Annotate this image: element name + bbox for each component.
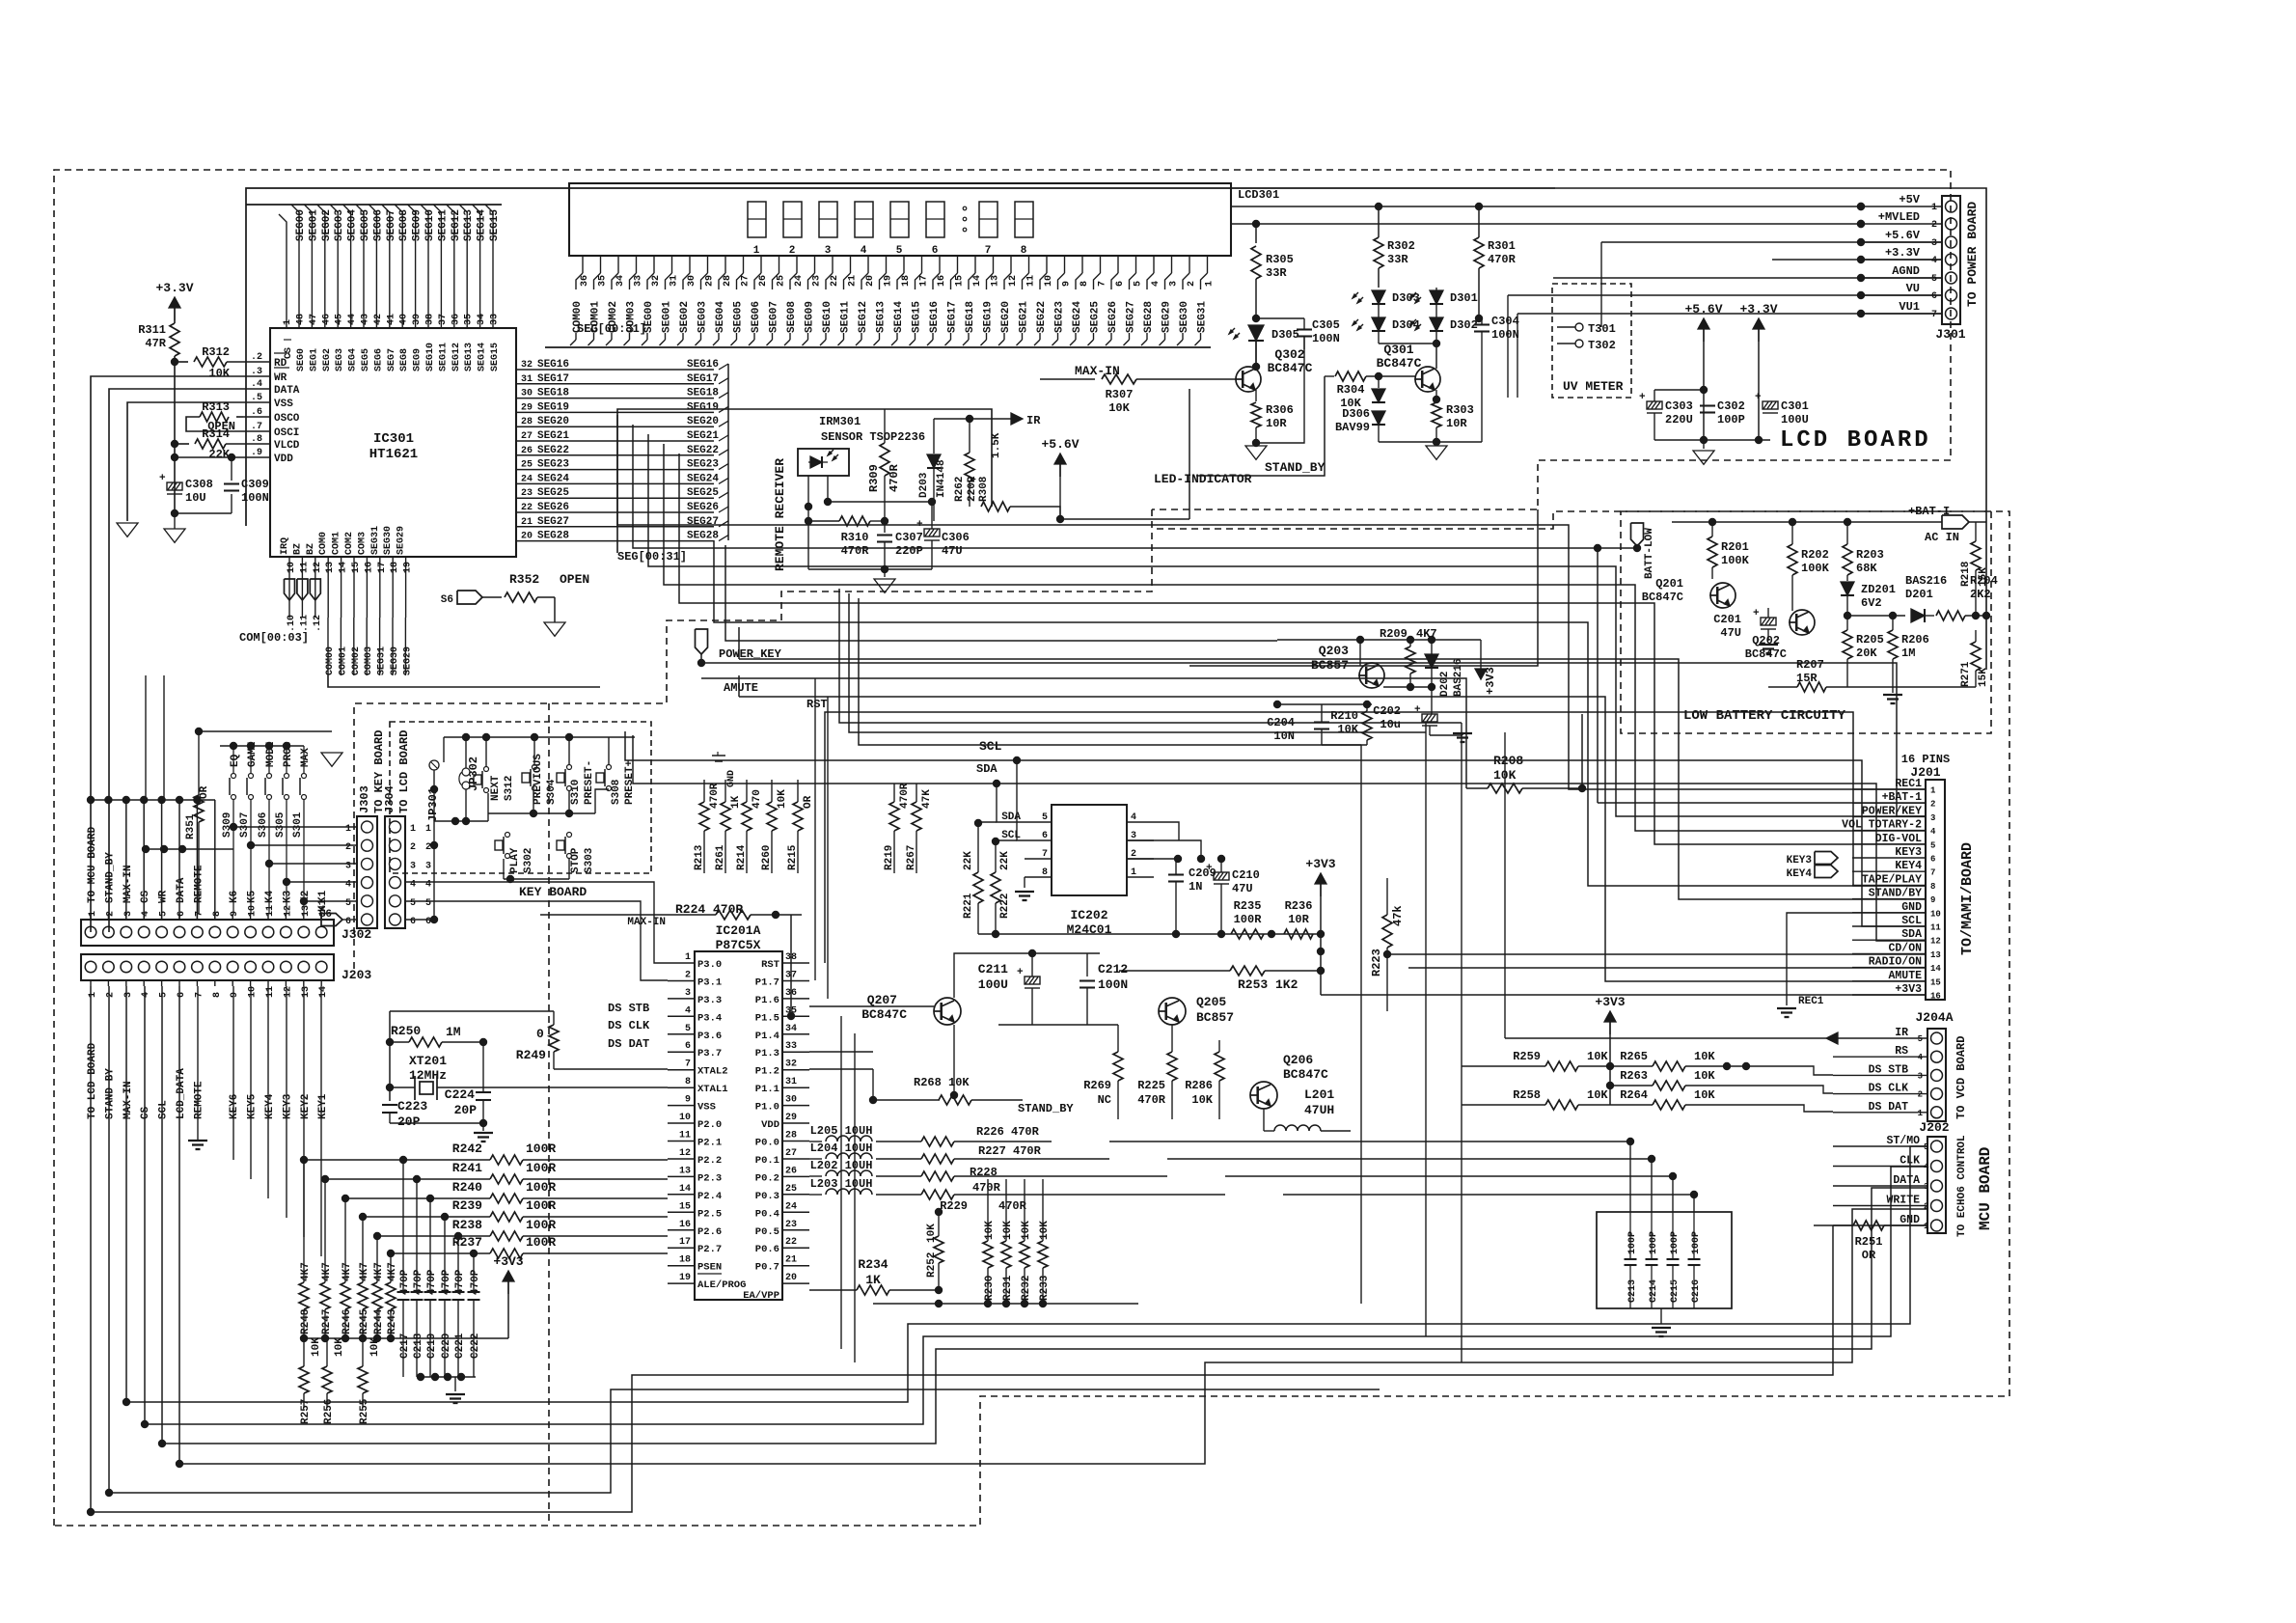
svg-text:S301: S301 xyxy=(292,811,304,838)
svg-text:REMOTE RECEIVER: REMOTE RECEIVER xyxy=(773,458,787,571)
svg-text:SEG03: SEG03 xyxy=(334,209,345,241)
svg-text:12: 12 xyxy=(1930,937,1941,947)
svg-text:DATA: DATA xyxy=(274,385,300,397)
svg-text:SEG04: SEG04 xyxy=(347,209,359,241)
resistor R267 47K xyxy=(889,802,899,831)
+5.6V arrow xyxy=(1054,454,1066,464)
svg-text:SEG30: SEG30 xyxy=(383,526,394,555)
svg-text:IR: IR xyxy=(1895,1027,1908,1039)
wire RADIO/ON xyxy=(1408,967,1926,969)
wire band row1 REC1 xyxy=(617,415,1926,789)
svg-text:6: 6 xyxy=(1042,831,1048,841)
+5.6V arrow caps xyxy=(1698,318,1709,329)
svg-text:1: 1 xyxy=(88,911,98,917)
ground C201 xyxy=(1759,644,1778,646)
svg-text:100N: 100N xyxy=(1491,328,1519,342)
svg-text:3: 3 xyxy=(825,245,832,257)
wire Q203 base xyxy=(1383,686,1432,688)
svg-text:R225: R225 xyxy=(1137,1079,1165,1092)
svg-text:+MVLED: +MVLED xyxy=(1878,210,1920,224)
svg-text:J202: J202 xyxy=(1919,1120,1949,1135)
svg-text:32: 32 xyxy=(785,1059,797,1070)
IC301 pin 7 OSCI xyxy=(243,430,270,432)
wire band row11 xyxy=(859,598,1361,745)
svg-text:1: 1 xyxy=(685,952,691,963)
svg-text:SEG10: SEG10 xyxy=(424,209,436,241)
svg-text:IC201A: IC201A xyxy=(716,923,761,938)
svg-text:5: 5 xyxy=(345,898,351,909)
svg-text:R201: R201 xyxy=(1721,540,1749,554)
svg-text:IC301: IC301 xyxy=(373,431,414,447)
svg-text:C215: C215 xyxy=(1670,1279,1681,1303)
svg-text:7: 7 xyxy=(1098,281,1108,287)
diode D202 BAS216 xyxy=(1425,654,1438,668)
svg-text:+5.6V: +5.6V xyxy=(1885,229,1921,242)
svg-text:DIG-VOL: DIG-VOL xyxy=(1875,833,1922,845)
svg-text:10N: 10N xyxy=(1273,729,1295,743)
svg-text:SEG27: SEG27 xyxy=(1126,301,1137,333)
svg-text:20K: 20K xyxy=(1856,646,1877,660)
svg-text:R240: R240 xyxy=(452,1180,482,1195)
svg-text:C302: C302 xyxy=(1717,399,1745,413)
svg-text:R219: R219 xyxy=(884,845,895,870)
svg-text:5: 5 xyxy=(896,245,903,257)
svg-text:WR: WR xyxy=(274,372,287,384)
svg-text:S312: S312 xyxy=(504,776,515,801)
svg-text:R213: R213 xyxy=(694,844,705,870)
svg-text:4K7: 4K7 xyxy=(342,1262,353,1281)
svg-text:P2.6: P2.6 xyxy=(697,1226,722,1238)
svg-text:14: 14 xyxy=(972,275,983,287)
svg-text:C210: C210 xyxy=(1232,868,1260,882)
svg-text:SEG[00:31]: SEG[00:31] xyxy=(617,550,687,564)
junction dots J302 wires xyxy=(87,796,95,804)
wire +MVLED xyxy=(1231,223,1861,225)
svg-text:47U: 47U xyxy=(1232,882,1253,895)
svg-text:10K: 10K xyxy=(1694,1088,1715,1102)
power +3.3V xyxy=(169,297,180,308)
resistor R201 100K xyxy=(1708,536,1717,567)
svg-text:C219: C219 xyxy=(426,1334,438,1359)
IC201 pin 26 P0.2 xyxy=(782,1175,809,1177)
svg-text:19: 19 xyxy=(884,275,894,287)
svg-text:24: 24 xyxy=(794,275,805,287)
svg-text:R265: R265 xyxy=(1620,1050,1648,1063)
svg-text:P1.4: P1.4 xyxy=(755,1031,779,1042)
svg-text:KEY3: KEY3 xyxy=(1787,855,1813,867)
svg-text:P2.5: P2.5 xyxy=(697,1208,722,1220)
resistor R202 100K xyxy=(1788,544,1797,575)
wire bundle bottom nest xyxy=(126,1146,1927,1402)
capacitor C308 10U xyxy=(167,482,182,494)
svg-text:.5: .5 xyxy=(251,393,262,403)
wires J302 cols to J303 xyxy=(233,826,357,828)
LED indicator outline xyxy=(1189,389,1190,519)
svg-text:1: 1 xyxy=(345,824,351,835)
svg-text:DS DAT: DS DAT xyxy=(608,1037,649,1051)
svg-text:R250: R250 xyxy=(391,1024,421,1038)
svg-text:7: 7 xyxy=(985,245,992,257)
svg-text:18: 18 xyxy=(901,275,912,287)
resistor R305 33R xyxy=(1255,224,1257,243)
wire SDA xyxy=(633,735,1926,941)
svg-text:VU1: VU1 xyxy=(1899,300,1920,314)
svg-text:SEG06: SEG06 xyxy=(372,209,384,241)
MCU board dashed border left jog xyxy=(354,509,1152,973)
capacitor C224 20P xyxy=(476,1091,491,1093)
resistor R253 1K2 xyxy=(1230,966,1265,976)
terminal T301 xyxy=(1575,323,1583,331)
svg-text:R271: R271 xyxy=(1960,661,1972,687)
svg-text:29: 29 xyxy=(521,402,533,413)
svg-text:470R: 470R xyxy=(1488,253,1517,266)
wire SDA to IC202 xyxy=(997,784,1025,822)
svg-text:CS: CS xyxy=(284,347,294,359)
svg-text:LCD301: LCD301 xyxy=(1238,188,1279,202)
remote receiver outline wire xyxy=(617,409,992,553)
svg-text:RST: RST xyxy=(806,698,828,711)
svg-text:P2.7: P2.7 xyxy=(697,1244,722,1255)
resistor R311 47R xyxy=(170,323,179,356)
IC201 pin 31 P1.1 xyxy=(782,1087,809,1088)
J203 key column wires xyxy=(232,986,234,1160)
svg-text:12: 12 xyxy=(1008,275,1019,287)
svg-text:5: 5 xyxy=(1918,1034,1923,1044)
svg-text:20: 20 xyxy=(521,532,533,542)
svg-text:STAND_BY: STAND_BY xyxy=(1018,1102,1074,1115)
svg-text:R305: R305 xyxy=(1266,253,1294,266)
bottom bus IC202 xyxy=(978,933,1321,935)
svg-text:16: 16 xyxy=(679,1220,691,1230)
svg-text:20P: 20P xyxy=(454,1103,478,1117)
svg-text:P3.3: P3.3 xyxy=(697,995,722,1006)
svg-text:10: 10 xyxy=(287,562,297,573)
svg-text:Q301: Q301 xyxy=(1383,343,1413,357)
svg-text:R222: R222 xyxy=(999,894,1011,919)
resistor R207 15R xyxy=(1797,682,1826,692)
ground caps xyxy=(454,1377,456,1391)
P0 row extensions xyxy=(1109,1141,1630,1142)
svg-text:DS CLK: DS CLK xyxy=(608,1019,650,1032)
IC201 pin 15 P2.5 xyxy=(668,1211,695,1213)
wire VDD xyxy=(175,456,243,458)
svg-text:34: 34 xyxy=(477,314,487,325)
svg-text:COM03: COM03 xyxy=(364,646,374,675)
svg-text:P0.4: P0.4 xyxy=(755,1208,779,1220)
svg-text:12: 12 xyxy=(679,1148,691,1159)
svg-text:R223: R223 xyxy=(1370,949,1383,977)
svg-text:SEG23: SEG23 xyxy=(537,459,569,471)
svg-text:+: + xyxy=(1753,608,1760,619)
capacitor C223 20P xyxy=(382,1104,397,1106)
diode D201 BAS216 xyxy=(1847,615,1905,617)
svg-text:SEG0: SEG0 xyxy=(296,348,307,371)
svg-text:21: 21 xyxy=(848,275,859,287)
svg-text:31: 31 xyxy=(785,1077,797,1087)
svg-text:VDD: VDD xyxy=(761,1119,779,1131)
svg-text:10u: 10u xyxy=(1380,718,1401,731)
wires IC202 right xyxy=(1154,822,1179,840)
svg-text:SEG5: SEG5 xyxy=(361,348,371,371)
IC201 pin 11 P2.1 xyxy=(668,1141,695,1142)
resistor R306 10R xyxy=(1255,390,1257,401)
svg-text:PLAY: PLAY xyxy=(509,847,521,873)
svg-text:SEG14: SEG14 xyxy=(477,209,488,241)
svg-text:STAND BY: STAND BY xyxy=(104,1068,116,1119)
svg-text:R268 10K: R268 10K xyxy=(914,1076,970,1089)
resistor R252 10K xyxy=(934,1236,943,1263)
svg-text:VOL TOTARY-2: VOL TOTARY-2 xyxy=(1842,819,1922,832)
svg-text:1M: 1M xyxy=(446,1025,461,1039)
svg-text:C201: C201 xyxy=(1713,613,1741,626)
svg-text:K3: K3 xyxy=(282,890,293,903)
svg-text:LOW BATTERY CIRCUITY: LOW BATTERY CIRCUITY xyxy=(1683,708,1846,724)
svg-text:SEG23: SEG23 xyxy=(1054,301,1066,333)
wire SCL to IC202 xyxy=(1017,760,1025,840)
svg-text:P0.5: P0.5 xyxy=(755,1226,779,1238)
svg-text:27: 27 xyxy=(741,275,752,287)
IC201 pin 30 P1.0 xyxy=(782,1105,809,1107)
svg-text:CS: CS xyxy=(140,1106,151,1119)
resistor R264 10K xyxy=(1653,1100,1685,1110)
svg-text:33: 33 xyxy=(785,1041,797,1052)
svg-text:27: 27 xyxy=(785,1148,797,1159)
svg-text:KEY4: KEY4 xyxy=(1787,868,1813,880)
svg-text:SEG17: SEG17 xyxy=(687,373,719,385)
IC301 top SEG label bus xyxy=(291,205,299,243)
ground outer loop xyxy=(245,526,247,536)
svg-text:68K: 68K xyxy=(1856,562,1877,575)
svg-text:R238: R238 xyxy=(452,1218,482,1232)
svg-text:C220: C220 xyxy=(441,1334,452,1359)
svg-text:6: 6 xyxy=(1931,291,1937,302)
IC201 pin 19 ALE/PROG xyxy=(668,1282,695,1284)
svg-text:Q202: Q202 xyxy=(1752,634,1780,647)
capacitor C305 100N xyxy=(1297,328,1312,330)
IC201 pin 6 P3.7 xyxy=(668,1051,695,1053)
svg-text:C222: C222 xyxy=(470,1334,481,1359)
svg-text:C218: C218 xyxy=(413,1333,424,1359)
svg-text:3: 3 xyxy=(1918,1071,1923,1081)
+3V3 arrow IC202 xyxy=(1315,873,1326,884)
svg-text:.6: .6 xyxy=(251,407,262,418)
svg-text:SCL: SCL xyxy=(158,1100,170,1119)
svg-text:COM00: COM00 xyxy=(325,646,336,675)
svg-text:SEG30: SEG30 xyxy=(390,646,400,675)
svg-text:R202: R202 xyxy=(1801,548,1829,562)
svg-text:SEG23: SEG23 xyxy=(687,459,719,471)
ground R352 xyxy=(544,622,565,636)
LCD digit 3 xyxy=(819,202,837,237)
svg-text:+: + xyxy=(1755,392,1762,403)
IC201 pin 5 P3.6 xyxy=(668,1033,695,1035)
IC301 pin 8 VLCD xyxy=(243,443,270,445)
svg-text:+3V3: +3V3 xyxy=(1305,857,1335,871)
svg-text:13: 13 xyxy=(301,905,312,917)
svg-text:470R: 470R xyxy=(998,1199,1027,1213)
svg-text:SEG11: SEG11 xyxy=(840,301,852,333)
svg-text:SEG30: SEG30 xyxy=(1179,301,1190,333)
XT201 top wire xyxy=(390,1010,554,1012)
LCD digit 1 xyxy=(748,202,766,237)
svg-text:10K: 10K xyxy=(311,1337,322,1357)
svg-text:D305: D305 xyxy=(1271,328,1299,342)
svg-text:SEG18: SEG18 xyxy=(687,388,719,399)
svg-text:SCL: SCL xyxy=(979,739,1002,754)
svg-text:SEG20: SEG20 xyxy=(537,416,569,427)
low battery ground xyxy=(1892,687,1894,693)
svg-text:S302: S302 xyxy=(523,848,534,873)
svg-text:100K: 100K xyxy=(1721,554,1750,567)
svg-text:2: 2 xyxy=(345,842,351,853)
resistor R255 10K xyxy=(299,1366,309,1393)
wire D304 D302 join xyxy=(1379,343,1436,344)
svg-text:9: 9 xyxy=(1930,895,1935,905)
svg-text:D202: D202 xyxy=(1439,672,1451,697)
keyboard matrix bus2 xyxy=(434,820,488,822)
svg-text:100R: 100R xyxy=(526,1218,556,1232)
svg-text:SEG25: SEG25 xyxy=(537,487,569,499)
svg-text:P0.1: P0.1 xyxy=(755,1155,779,1167)
wire STAND_BY to Q301 base xyxy=(1196,376,1325,476)
svg-text:BZ: BZ xyxy=(292,543,303,555)
svg-text:100N: 100N xyxy=(1098,977,1128,992)
resistor R310 470R xyxy=(839,516,870,526)
svg-text:SEG19: SEG19 xyxy=(983,301,995,333)
svg-text:33: 33 xyxy=(490,314,501,325)
svg-text:1N: 1N xyxy=(1189,880,1202,894)
svg-text:100R: 100R xyxy=(526,1180,556,1195)
svg-text:C305: C305 xyxy=(1312,318,1340,332)
svg-text:10: 10 xyxy=(1044,275,1054,287)
capacitor C209 1N xyxy=(1168,873,1184,875)
svg-text:R313: R313 xyxy=(202,400,230,414)
svg-text:COM02: COM02 xyxy=(351,646,362,675)
svg-text:23: 23 xyxy=(785,1220,797,1230)
svg-text:19: 19 xyxy=(403,562,414,573)
svg-text:R258: R258 xyxy=(1513,1088,1541,1102)
svg-text:RS: RS xyxy=(1895,1045,1908,1058)
svg-text:3: 3 xyxy=(1931,238,1937,249)
LCD digit 7 xyxy=(979,202,998,237)
wire VU1 xyxy=(1517,313,1942,315)
svg-text:+3.3V: +3.3V xyxy=(155,281,193,295)
capacitor C210 47U xyxy=(1214,872,1229,884)
svg-text:8: 8 xyxy=(1080,281,1090,287)
svg-text:SEG07: SEG07 xyxy=(386,209,397,241)
resistor R215 OR xyxy=(699,802,709,831)
svg-text:4K7: 4K7 xyxy=(321,1262,333,1281)
svg-text:SEG16: SEG16 xyxy=(929,301,941,333)
svg-text:R231: R231 xyxy=(1002,1275,1014,1301)
svg-text:SEG20: SEG20 xyxy=(687,416,719,427)
svg-text:SEG29: SEG29 xyxy=(396,526,407,555)
svg-text:R243: R243 xyxy=(387,1308,398,1334)
svg-text:14: 14 xyxy=(339,562,349,573)
svg-text:T302: T302 xyxy=(1588,339,1616,352)
svg-text:220P: 220P xyxy=(895,544,923,558)
svg-text:4K7: 4K7 xyxy=(387,1262,398,1281)
svg-text:P1.3: P1.3 xyxy=(755,1048,779,1059)
svg-text:RADIO/ON: RADIO/ON xyxy=(1869,956,1922,969)
svg-text:LED-INDICATOR: LED-INDICATOR xyxy=(1154,472,1252,486)
svg-text:D302: D302 xyxy=(1450,318,1478,332)
svg-text:SEG24: SEG24 xyxy=(687,473,719,484)
svg-text:12: 12 xyxy=(283,905,293,917)
svg-text:P2.2: P2.2 xyxy=(697,1155,722,1167)
svg-text:R228: R228 xyxy=(970,1166,998,1179)
svg-text:34: 34 xyxy=(615,275,626,287)
svg-text:6: 6 xyxy=(177,911,187,917)
svg-text:BC847C: BC847C xyxy=(1377,356,1422,371)
svg-text:.10: .10 xyxy=(287,615,297,632)
svg-text:VSS: VSS xyxy=(274,399,293,410)
svg-text:10K: 10K xyxy=(984,1221,996,1240)
svg-text:R244: R244 xyxy=(373,1308,385,1334)
svg-text:10K: 10K xyxy=(1021,1221,1032,1240)
svg-text:J203: J203 xyxy=(342,968,371,982)
LCD digit 4 xyxy=(855,202,873,237)
plug POWER_KEY xyxy=(696,629,708,654)
svg-text:9: 9 xyxy=(230,911,240,917)
svg-text:100R: 100R xyxy=(1234,913,1263,926)
svg-text:100K: 100K xyxy=(1801,562,1830,575)
svg-text:R230: R230 xyxy=(984,1276,996,1301)
key column turns xyxy=(233,1160,1785,1474)
svg-text:C214: C214 xyxy=(1649,1279,1659,1303)
wire band row9 xyxy=(839,589,1462,723)
svg-text:22: 22 xyxy=(785,1237,797,1248)
IC201 pin 2 P3.1 xyxy=(668,980,695,982)
svg-text:DS CLK: DS CLK xyxy=(1869,1083,1909,1095)
svg-text:10K: 10K xyxy=(334,1337,345,1357)
svg-text:SEG19: SEG19 xyxy=(537,401,569,413)
IC202 right pins xyxy=(1127,821,1154,823)
IC301 bottom plug .11 xyxy=(297,579,308,600)
svg-text:SEG13: SEG13 xyxy=(464,343,475,371)
ground XT201 xyxy=(482,1123,484,1131)
ground caps xyxy=(1693,451,1714,464)
resistor R286 10K xyxy=(1215,1052,1224,1081)
svg-text:KEY3: KEY3 xyxy=(282,1093,293,1119)
svg-text:24: 24 xyxy=(521,474,533,484)
svg-text:SEG22: SEG22 xyxy=(687,445,719,456)
svg-text:K4: K4 xyxy=(264,890,276,903)
svg-text:SDA: SDA xyxy=(976,762,998,776)
svg-text:COM1: COM1 xyxy=(332,532,342,555)
svg-text:4: 4 xyxy=(1930,827,1936,837)
svg-text:SEG16: SEG16 xyxy=(687,359,719,371)
svg-text:15: 15 xyxy=(679,1201,691,1212)
ground C bank xyxy=(1660,1308,1662,1324)
svg-text:DATA: DATA xyxy=(1893,1174,1920,1187)
svg-text:SEG08: SEG08 xyxy=(786,301,798,333)
svg-text:10K: 10K xyxy=(369,1337,381,1357)
svg-text:100R: 100R xyxy=(526,1235,556,1250)
svg-text:J204A: J204A xyxy=(1915,1010,1953,1025)
Q207 collector emitter wires xyxy=(954,953,998,998)
svg-text:1: 1 xyxy=(1918,1109,1924,1118)
svg-text:R232: R232 xyxy=(1021,1276,1032,1301)
LCD ellipsis dots xyxy=(963,206,967,210)
svg-text:SEG29: SEG29 xyxy=(402,646,413,675)
svg-text:20: 20 xyxy=(785,1273,797,1283)
svg-text:OPEN: OPEN xyxy=(560,572,589,587)
IC201 pin 20 xyxy=(782,1282,809,1284)
resistor R205 20K xyxy=(1843,630,1852,659)
svg-text:S303: S303 xyxy=(584,847,595,873)
ground IC301 left xyxy=(174,513,176,529)
